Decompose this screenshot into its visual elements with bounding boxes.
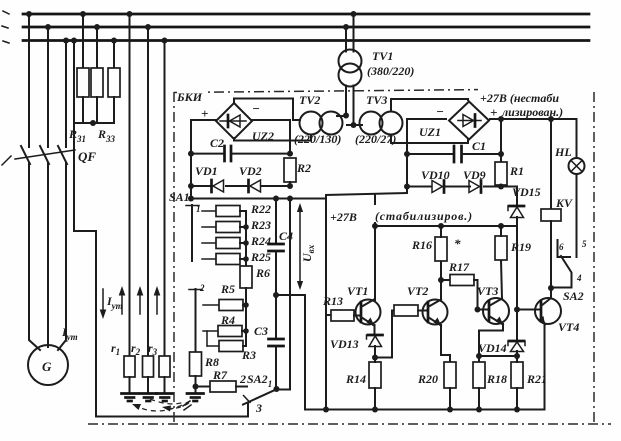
svg-text:G: G <box>42 359 52 374</box>
tap R24 <box>202 242 216 244</box>
node VT3 base <box>475 307 481 313</box>
wire R7 right <box>236 386 247 388</box>
wire UZ1 plus rail to HL <box>490 118 577 120</box>
wire TV3 to UZ1 top AC <box>391 99 468 112</box>
capacitor C3 <box>269 338 284 341</box>
svg-text:VD1: VD1 <box>195 164 218 178</box>
enclosure dash-dot border right <box>593 92 595 424</box>
node VT2 collector R17 tap <box>438 277 444 283</box>
bus line 3 <box>23 39 589 42</box>
tap R5 <box>203 304 219 306</box>
svg-text:+: + <box>490 105 497 120</box>
breaker QF pole 3 <box>58 146 67 164</box>
wire KV coil feed <box>550 119 552 209</box>
wire Uvx bottom rail <box>276 294 305 296</box>
current arrow up on r1 wire <box>121 292 123 314</box>
svg-text:VT4: VT4 <box>558 320 579 334</box>
svg-text:R18: R18 <box>486 372 507 386</box>
node phase B on bus2 <box>45 24 51 30</box>
transformer TV2 winding left <box>300 112 323 135</box>
contact 6 leg <box>558 240 571 257</box>
wire VT4 collector up <box>550 288 552 298</box>
relay coil KV <box>541 209 561 221</box>
transformer TV1 winding 1 <box>339 50 362 73</box>
capacitor C1 row left wire <box>407 153 454 155</box>
switch SA1 section 1 pole <box>191 205 193 261</box>
capacitor C2 row right wire <box>231 153 290 155</box>
resistor R33 lead from bus3 <box>113 41 115 69</box>
node TV1 on bus1 <box>351 11 357 17</box>
wire link R4 tap to R3 tap <box>206 331 208 346</box>
svg-text:VT2: VT2 <box>407 284 428 298</box>
enclosure dash-dot border top <box>174 89 594 93</box>
svg-text:VD10: VD10 <box>421 168 450 182</box>
wire UZ2 bottom AC to TV2 <box>234 135 311 141</box>
svg-text:SA2: SA2 <box>563 289 584 303</box>
wire R7 left <box>196 386 211 388</box>
label +27V unstabilized line1 <box>478 86 590 99</box>
node common bar <box>90 120 96 126</box>
wire VD15 node down to VT4 base <box>516 226 518 339</box>
wire phase C from bus3 <box>65 41 67 148</box>
wire R32 bottom <box>96 97 98 123</box>
capacitor C2 <box>223 146 226 161</box>
wire VT4 base <box>517 309 541 311</box>
node r3 on bus3 <box>162 38 168 44</box>
diode VD1 <box>210 180 213 192</box>
diode VD9 <box>469 181 480 193</box>
wire stab rail feed <box>374 195 376 300</box>
transistor VT2 <box>423 300 448 325</box>
node SA1 rail at R2 column <box>287 196 293 202</box>
wire UZ2 plus output rail <box>191 120 216 199</box>
resistor R6 <box>240 266 252 288</box>
wire R1 top lead <box>500 119 502 162</box>
wire r1 branch from bus1 <box>129 14 131 356</box>
node r2 on bus2 <box>145 24 151 30</box>
resistor R1 <box>495 162 507 185</box>
resistor R4 <box>218 326 242 337</box>
svg-text:R23: R23 <box>250 218 271 232</box>
wire r2 branch from bus2 <box>147 27 149 356</box>
node plus rail at SA1 rail <box>188 196 194 202</box>
node R1 bottom <box>498 184 504 190</box>
svg-text:TV3: TV3 <box>366 93 387 107</box>
svg-text:C2: C2 <box>210 136 224 150</box>
svg-text:VD9: VD9 <box>463 168 486 182</box>
wire neutral from bus3 down left side <box>74 41 248 417</box>
wire VD10 row segment 1 <box>407 186 431 188</box>
resistor VT2 base <box>394 305 418 316</box>
resistor R8 <box>190 352 202 376</box>
tap R22 <box>202 210 216 212</box>
resistor R16 <box>435 237 447 261</box>
node VT4 base tap <box>514 307 520 313</box>
wire VD row segment 1 <box>191 185 213 187</box>
svg-text:(220/130): (220/130) <box>294 132 341 146</box>
svg-text:R8: R8 <box>204 355 219 369</box>
node R33 on bus3 <box>111 38 117 44</box>
wire r2 to ground <box>147 377 149 393</box>
svg-text:HL: HL <box>554 145 572 159</box>
node C4 bottom <box>273 292 279 298</box>
lamp HL <box>569 158 585 174</box>
wire r3 branch from bus3 <box>164 41 166 357</box>
wire R6 bottom column <box>245 288 247 346</box>
node R24 right <box>243 240 249 246</box>
wire mid vertical from SA1 rail to SA2.1 <box>278 199 291 390</box>
wire R2 bottom <box>289 182 291 186</box>
transistor VT1 <box>356 300 381 325</box>
wire R13 to VT1 base <box>354 315 361 317</box>
node TV1 on bus2 <box>343 24 349 30</box>
wire r1 to ground <box>129 377 131 393</box>
node R32 on bus2 <box>94 24 100 30</box>
wire R13 feed <box>326 314 331 316</box>
wire VD14 anode to node <box>516 351 518 356</box>
node R23 right <box>243 224 249 230</box>
wire r3 to ground <box>164 377 166 393</box>
breaker QF linkage bar <box>15 150 75 159</box>
switch SA1 section 2 pole <box>195 289 197 352</box>
node neutral on bus3 <box>71 38 77 44</box>
svg-text:3: 3 <box>255 401 262 415</box>
switch SA2.1 blade <box>243 390 276 405</box>
node TV1-TV3 <box>351 122 357 128</box>
wire UZ1 minus rail <box>407 119 446 193</box>
node R31 on bus1 <box>80 11 86 17</box>
svg-text:2: 2 <box>199 283 205 293</box>
enclosure dash-dot border left <box>173 92 175 424</box>
wire phase B from bus2 <box>47 27 49 147</box>
node plus rail at VD row <box>188 183 194 189</box>
resistor R33 <box>108 68 120 97</box>
node R2 bottom <box>287 183 293 189</box>
node R25 right <box>243 256 249 262</box>
wire bottom emitter rail <box>305 409 545 411</box>
breaker QF pole 1 <box>21 146 30 164</box>
resistor R23 <box>216 222 240 233</box>
wire R17 to VT3 base <box>474 280 489 310</box>
node plus rail at C2 row <box>188 151 194 157</box>
svg-text:C1: C1 <box>472 139 486 153</box>
svg-text:+: + <box>201 106 208 121</box>
wire C3 upper lead <box>275 295 277 339</box>
node R14 bottom <box>372 407 378 413</box>
enclosure dash-dot border bottom <box>88 423 611 425</box>
svg-text:+27В (нестаби: +27В (нестаби <box>480 91 559 105</box>
node R21 bottom <box>514 407 520 413</box>
wire anode rail R18-VD14 <box>479 355 517 357</box>
resistor r1 <box>124 356 135 377</box>
svg-text:UZ1: UZ1 <box>419 125 441 139</box>
node plus rail at R1 <box>498 116 504 122</box>
wire UZ2 top AC to TV2 <box>234 99 300 121</box>
resistor R17 <box>441 279 450 281</box>
node VD13 bottom <box>372 355 378 361</box>
svg-text:R1: R1 <box>509 164 524 178</box>
current arrow Iut down <box>102 289 104 314</box>
wire C3 lower lead <box>275 346 277 389</box>
resistor R22 <box>216 206 240 217</box>
wire R5 right <box>243 304 246 306</box>
switch SA2 blade to terminal 4 <box>553 256 572 288</box>
wire TV1 secondary down left <box>345 86 347 116</box>
diode VD10 <box>432 181 443 193</box>
wire R3 right <box>243 345 246 347</box>
resistor R32 lead from bus2 <box>96 27 98 68</box>
node R5 right <box>243 302 249 308</box>
resistor R7 <box>210 381 236 392</box>
resistor R14 <box>369 362 381 388</box>
svg-text:QF: QF <box>78 149 96 164</box>
svg-text:VD13: VD13 <box>330 337 359 351</box>
ground under r3 <box>157 394 174 402</box>
leakage chevron arrow <box>183 401 191 410</box>
node left column bottom <box>323 407 329 413</box>
zener VD14 <box>509 340 524 343</box>
tap R3 <box>207 345 219 347</box>
svg-text:(380/220): (380/220) <box>367 64 414 78</box>
svg-text:−: − <box>252 101 260 116</box>
resistor R18 <box>473 362 485 388</box>
wire to VT2 base <box>418 310 428 312</box>
resistor R31 <box>77 68 89 97</box>
ground under r2 <box>140 394 157 402</box>
zener VD15 <box>516 187 518 206</box>
wire UZ2 minus output <box>252 120 290 154</box>
zener VD13 <box>368 334 383 337</box>
resistor R3 <box>219 341 243 352</box>
wire phase A to generator <box>29 163 40 350</box>
node minus at C2 row <box>287 151 293 157</box>
svg-text:R13: R13 <box>322 294 343 308</box>
resistor R31 lead from bus1 <box>82 14 84 68</box>
transistor VT4 <box>535 298 561 324</box>
wire R22-R25 column <box>240 211 246 266</box>
svg-text:R6: R6 <box>255 266 270 280</box>
wire R33 bottom <box>113 97 115 123</box>
node r1 on bus1 <box>127 11 133 17</box>
resistor r3 <box>159 356 170 377</box>
wire stab rail <box>375 225 517 227</box>
svg-text:−: − <box>436 104 444 119</box>
wire VT1 emitter down <box>374 325 376 334</box>
capacitor C4 bottom lead <box>275 251 277 295</box>
svg-text:TV2: TV2 <box>299 93 320 107</box>
node R20 bottom <box>447 407 453 413</box>
wire emitter node to base resistor <box>375 311 394 358</box>
node stab rail left <box>372 223 378 229</box>
node R4 right <box>243 328 249 334</box>
svg-text:+27В: +27В <box>330 210 357 224</box>
wire jog to TV2 <box>337 115 346 117</box>
resistor R13 <box>331 310 354 321</box>
bus line 2 <box>23 26 589 29</box>
node VT4 collector <box>548 285 554 291</box>
transistor VT3 <box>483 298 509 324</box>
node phase C on bus3 <box>63 38 69 44</box>
current arrow up on r2 wire <box>139 292 141 314</box>
svg-text:R20: R20 <box>417 372 438 386</box>
wire R25 right <box>240 258 246 260</box>
wire VT2 emitter to R20 <box>441 325 450 362</box>
transformer TV2 winding right <box>320 112 343 135</box>
wire TV1 secondary down right <box>353 86 355 126</box>
svg-text:R19: R19 <box>510 240 531 254</box>
lamp HL branch upper <box>576 119 578 158</box>
svg-text:SA1: SA1 <box>169 190 190 204</box>
capacitor C2 row left wire <box>191 153 224 155</box>
wire common bar of R31-R33 <box>74 122 114 124</box>
resistor R21 <box>511 362 523 388</box>
svg-text:KV: KV <box>555 196 573 210</box>
svg-text:1: 1 <box>196 204 201 214</box>
wire phase B to generator <box>47 163 49 347</box>
svg-text:VD2: VD2 <box>239 164 262 178</box>
svg-text:R2: R2 <box>296 161 311 175</box>
ground under R8 <box>187 394 204 402</box>
resistor r2 <box>143 356 154 377</box>
wire R22 right <box>240 210 246 212</box>
wire VD row segment 3 <box>262 185 290 187</box>
breaker QF pole 2 <box>40 146 49 164</box>
capacitor C1 row right wire <box>462 153 502 155</box>
svg-text:VD15: VD15 <box>512 185 541 199</box>
wire VT3 emitter to R18 <box>479 324 503 362</box>
wire phase C to generator <box>58 163 66 350</box>
wire R8 bottom <box>195 376 197 393</box>
wire VD row segment 3 <box>484 186 517 188</box>
resistor R20 <box>444 362 456 388</box>
svg-text:5: 5 <box>582 239 587 249</box>
svg-text:UZ2: UZ2 <box>252 129 274 143</box>
wire VT4 emitter to rail <box>544 324 546 410</box>
node C1 right <box>498 151 504 157</box>
svg-text:R4: R4 <box>220 313 235 327</box>
wire VT2 collector up <box>440 261 442 300</box>
svg-text:R14: R14 <box>345 372 366 386</box>
capacitor C4 top lead <box>275 199 277 245</box>
measurement arrow Uvx <box>299 207 301 286</box>
wire TV1 to bus2 <box>345 27 347 52</box>
node phase A on bus1 <box>26 11 32 17</box>
svg-text:R16: R16 <box>411 238 432 252</box>
svg-text:БКИ: БКИ <box>176 90 203 104</box>
svg-text:R17: R17 <box>448 260 470 274</box>
wire R1 bottom <box>500 185 502 187</box>
node plus rail at KV <box>548 116 554 122</box>
wire TV3 to UZ1 bottom AC <box>391 135 468 144</box>
svg-text:R7: R7 <box>212 368 228 382</box>
node R18 top at anode rail <box>476 353 482 359</box>
capacitor C4 <box>269 243 284 246</box>
node minus rail at C1 row <box>404 151 410 157</box>
svg-text:VT3: VT3 <box>477 284 498 298</box>
dashed leakage arc 1 <box>136 401 190 411</box>
tap R4 <box>203 330 218 332</box>
node stab rail at R19 <box>498 223 504 229</box>
bus line 1 <box>23 13 589 16</box>
resistor R5 <box>219 300 243 311</box>
wire phase A from bus1 <box>28 14 30 147</box>
svg-text:R5: R5 <box>220 282 235 296</box>
svg-text:VT1: VT1 <box>347 284 368 298</box>
wire R24 right <box>240 242 246 244</box>
node minus rail at VD row <box>404 184 410 190</box>
node SA1 rail at C4 <box>273 196 279 202</box>
generator G <box>28 345 68 385</box>
wire KV to VT4 collector node <box>550 221 552 288</box>
svg-text:4: 4 <box>576 273 582 283</box>
node stab rail at R16 <box>438 223 444 229</box>
lamp HL branch lower <box>576 174 578 257</box>
svg-text:(стабилизиров.): (стабилизиров.) <box>375 209 473 223</box>
wire VD13 to node <box>374 346 376 358</box>
wire R31 bottom <box>82 97 84 123</box>
resistor R24 <box>216 238 240 249</box>
rectifier bridge UZ2 <box>216 103 252 139</box>
svg-text:R22: R22 <box>250 202 271 216</box>
wire SA1 rail <box>191 198 326 200</box>
wire jog to TV3 <box>347 124 362 126</box>
dashed leakage arc 2 <box>166 403 189 408</box>
wire left column down to bottom rail <box>325 195 327 410</box>
svg-text:VD14: VD14 <box>478 341 507 355</box>
transformer TV3 winding right <box>380 112 403 135</box>
tap R25 <box>202 258 216 260</box>
svg-text:R24: R24 <box>250 234 271 248</box>
wire VT3 collector to R19 <box>501 260 502 299</box>
transformer TV1 winding 2 <box>339 64 362 87</box>
wire down to output rail left end <box>304 295 306 410</box>
resistor R32 <box>91 68 103 97</box>
wire SA1 pole 2 to R8 <box>195 351 197 353</box>
capacitor C1 <box>453 146 456 162</box>
svg-text:лизирован.): лизирован.) <box>501 105 563 119</box>
resistor R2 <box>284 158 296 182</box>
svg-text:TV1: TV1 <box>372 49 393 63</box>
dashed leakage arc 3 <box>150 399 184 404</box>
wire VD row segment 2 <box>226 185 248 187</box>
svg-text:R3: R3 <box>241 348 256 362</box>
current arrow up on r3 wire <box>156 292 158 314</box>
transformer TV3 winding left <box>360 112 383 135</box>
wire VD row segment 2 <box>445 186 470 188</box>
resistor R25 <box>216 254 240 265</box>
ground under r1 <box>122 394 139 402</box>
tap R23 <box>202 226 216 228</box>
node SA2.1 to C3 <box>274 386 280 392</box>
node R8 ground <box>193 384 199 390</box>
node VD14 bottom <box>514 353 520 359</box>
wire R4 right <box>242 330 246 332</box>
node TV1-TV2 <box>343 113 349 119</box>
svg-text:*: * <box>454 236 461 251</box>
svg-text:6: 6 <box>559 242 564 252</box>
switch SA2.1 actuator tick <box>244 396 251 403</box>
diode VD2 <box>247 180 250 192</box>
wire R23 right <box>240 226 246 228</box>
svg-text:C3: C3 <box>254 324 268 338</box>
wire minus rail horizontal to left <box>326 193 407 195</box>
wire TV1 to bus1 <box>353 14 355 52</box>
node R18 bottom <box>476 407 482 413</box>
rectifier bridge UZ1 <box>449 102 489 140</box>
switch SA2.1 pivot wire <box>247 403 249 417</box>
resistor R19 <box>495 236 507 260</box>
